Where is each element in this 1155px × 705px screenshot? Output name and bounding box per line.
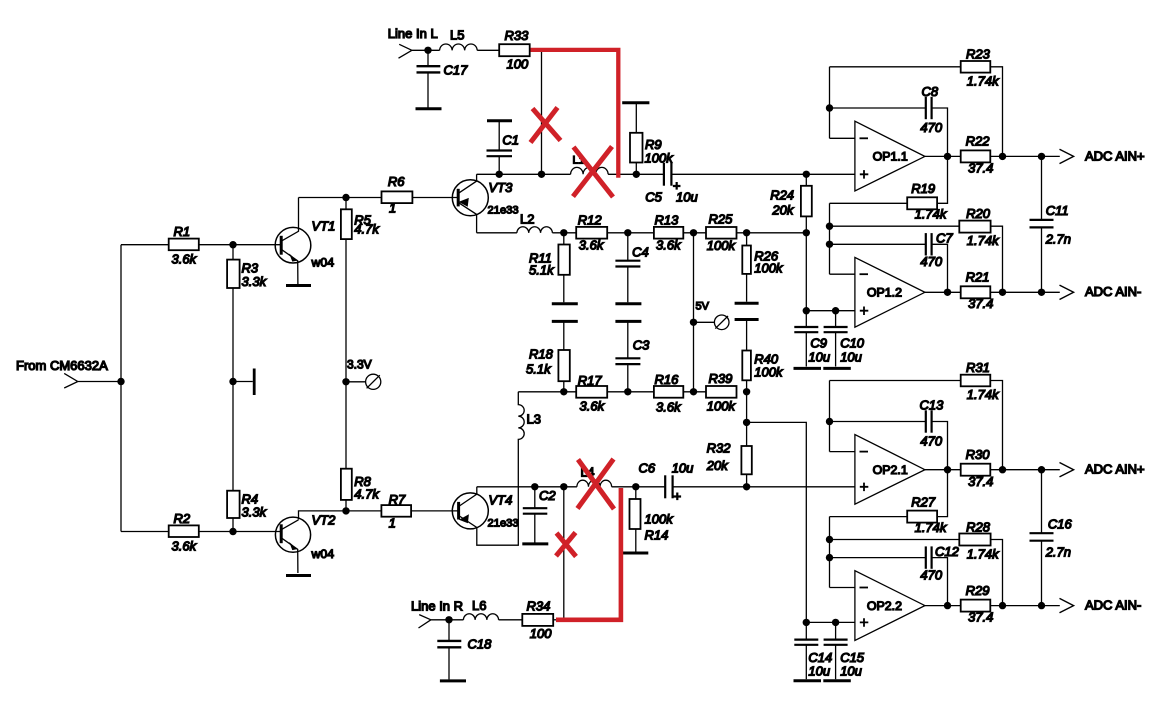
resistor R30 xyxy=(961,447,994,489)
node R9 on row B xyxy=(633,171,640,178)
wire red bypass top (R33 to L1 output) xyxy=(531,50,619,178)
svg-text:L2: L2 xyxy=(520,212,534,227)
svg-text:1.74k: 1.74k xyxy=(915,207,948,222)
svg-text:100k: 100k xyxy=(645,151,675,166)
svg-text:37.4: 37.4 xyxy=(968,296,993,311)
capacitor C16 xyxy=(1030,470,1073,606)
capacitor C18 xyxy=(437,620,492,680)
node mid rail row D junction xyxy=(690,388,697,395)
wire OP1.1 feedback left vertical xyxy=(829,67,831,139)
ground below R26 xyxy=(735,302,759,305)
svg-text:R1: R1 xyxy=(174,224,191,239)
ground below C18 xyxy=(440,679,466,682)
ground above C3 xyxy=(615,320,641,323)
svg-text:100k: 100k xyxy=(754,261,784,276)
capacitor C5 xyxy=(645,163,697,204)
svg-text:Line In L: Line In L xyxy=(388,26,438,41)
capacitor C3 xyxy=(615,321,650,391)
svg-text:R34: R34 xyxy=(527,599,551,614)
svg-text:21e33: 21e33 xyxy=(488,205,519,217)
resistor R11 xyxy=(529,233,570,302)
svg-text:100k: 100k xyxy=(707,399,737,414)
wire OP2.2 minus input xyxy=(830,587,855,589)
node C9 junction xyxy=(803,307,810,314)
node R8/R7/VT2 junction xyxy=(342,507,349,514)
resistor R17 xyxy=(576,373,607,414)
svg-text:3.6k: 3.6k xyxy=(656,238,682,253)
svg-text:470: 470 xyxy=(920,434,942,449)
power symbol 3.3V xyxy=(346,358,381,390)
svg-text:C4: C4 xyxy=(632,245,649,260)
svg-text:10u: 10u xyxy=(808,350,830,365)
svg-text:L6: L6 xyxy=(472,598,486,613)
wire L6 to R34 xyxy=(499,619,523,621)
svg-text:C11: C11 xyxy=(1046,203,1069,218)
svg-text:21e33: 21e33 xyxy=(488,518,519,530)
wire R33 drop to top row xyxy=(530,50,542,174)
svg-text:5V: 5V xyxy=(696,301,710,313)
svg-text:R33: R33 xyxy=(505,28,530,43)
svg-text:5.1k: 5.1k xyxy=(526,362,552,377)
node R28 feedback junction xyxy=(999,602,1006,609)
node 5V tap xyxy=(690,319,697,326)
resistor R8 xyxy=(341,469,380,502)
wire R8 bottom to R7 row xyxy=(345,500,347,511)
resistor R25 xyxy=(706,212,737,254)
svg-text:470: 470 xyxy=(920,120,942,135)
wire Line In L to L5 xyxy=(412,49,440,51)
svg-text:R32: R32 xyxy=(707,441,732,456)
svg-text:C17: C17 xyxy=(444,63,469,78)
wire R6 to VT3 base xyxy=(412,197,458,199)
svg-text:3.3V: 3.3V xyxy=(347,358,372,372)
svg-text:R25: R25 xyxy=(709,212,734,227)
node mid junction with ground stub xyxy=(229,378,236,385)
node ADC AIN- output arrow 2 xyxy=(1060,598,1142,613)
resistor R24 xyxy=(770,174,812,310)
node C18 junction xyxy=(445,616,452,623)
svg-text:3.6k: 3.6k xyxy=(656,400,682,415)
node OP2.1 output junction xyxy=(944,466,951,473)
transistor VT1 xyxy=(275,198,335,285)
svg-text:R28: R28 xyxy=(966,519,991,534)
svg-text:3.6k: 3.6k xyxy=(580,399,606,414)
svg-text:10u: 10u xyxy=(676,189,698,204)
resistor R33 xyxy=(499,28,530,72)
node red X cut mark on R33 drop xyxy=(531,108,561,143)
wire R1 to VT1 base xyxy=(199,244,281,246)
svg-text:1.74k: 1.74k xyxy=(967,546,1000,561)
capacitor C8 xyxy=(830,84,948,203)
node C4 junction row C xyxy=(624,229,631,236)
node C1 on row B xyxy=(496,171,503,178)
svg-text:3.3k: 3.3k xyxy=(242,274,268,289)
node C17 junction xyxy=(424,47,431,54)
wire R22 to ADC AIN+ xyxy=(990,155,1060,157)
resistor R23 xyxy=(830,47,1003,157)
inductor L3 xyxy=(477,392,541,545)
capacitor C1 xyxy=(487,121,520,175)
capacitor C10 xyxy=(824,311,865,367)
svg-text:C6: C6 xyxy=(639,461,656,476)
resistor R4 xyxy=(227,491,267,520)
resistor R9 xyxy=(630,103,674,175)
wire R21 to ADC AIN- xyxy=(990,291,1060,293)
svg-text:VT1: VT1 xyxy=(312,219,336,234)
node R31 feedback junction xyxy=(999,466,1006,473)
node red X over L4 xyxy=(578,459,615,509)
svg-text:R7: R7 xyxy=(389,492,406,507)
resistor R7 xyxy=(381,492,411,531)
wire R2 row xyxy=(121,531,169,533)
inductor L2 xyxy=(517,212,552,233)
svg-text:OP1.2: OP1.2 xyxy=(867,286,902,300)
node C10 junction xyxy=(832,307,839,314)
transistor VT2 xyxy=(275,513,336,574)
wire drop from row E to R34 xyxy=(563,487,565,620)
node C11 bottom junction xyxy=(1038,289,1045,296)
capacitor C9 xyxy=(794,311,830,367)
node C3 junction row D xyxy=(624,388,631,395)
ground above R18 xyxy=(552,320,578,323)
svg-text:w04: w04 xyxy=(311,547,335,561)
svg-text:C2: C2 xyxy=(539,488,556,503)
node C16 top junction xyxy=(1038,466,1045,473)
svg-text:4.7k: 4.7k xyxy=(354,222,380,237)
node L2/R11/R12 junction xyxy=(560,229,567,236)
svg-text:C12: C12 xyxy=(935,544,960,559)
svg-text:3.6k: 3.6k xyxy=(172,539,198,554)
wire R3 top xyxy=(232,245,234,260)
wire VT1 collector to R5 node xyxy=(299,197,347,199)
svg-text:R12: R12 xyxy=(578,213,603,228)
node R20 feedback junction xyxy=(999,289,1006,296)
capacitor C2 xyxy=(523,487,557,543)
resistor R40 xyxy=(742,320,784,392)
node C13 tap xyxy=(826,418,833,425)
wire OP1.2 output xyxy=(925,291,961,293)
svg-text:1.74k: 1.74k xyxy=(967,387,1000,402)
wire OP2.2 output xyxy=(925,605,961,607)
wire OP1.2 plus input rail xyxy=(806,310,855,312)
svg-text:R17: R17 xyxy=(578,373,603,388)
resistor R18 xyxy=(526,321,570,391)
op-amp OP1.1 xyxy=(855,121,925,191)
svg-text:1: 1 xyxy=(389,201,396,216)
ground below C2 xyxy=(522,542,548,545)
node input junction xyxy=(117,378,124,385)
node Line In R xyxy=(411,599,463,629)
resistor R31 xyxy=(830,360,1003,470)
svg-text:100k: 100k xyxy=(645,512,675,527)
resistor R1 xyxy=(169,224,199,267)
svg-text:R6: R6 xyxy=(388,174,405,189)
resistor R3 xyxy=(227,260,267,289)
svg-text:L5: L5 xyxy=(450,28,464,43)
node Line In L xyxy=(388,26,438,58)
resistor R21 xyxy=(961,270,994,312)
node R32 bottom junction xyxy=(743,483,750,490)
svg-text:5.1k: 5.1k xyxy=(529,263,555,278)
svg-text:+: + xyxy=(674,489,682,504)
ground below R14 xyxy=(622,552,648,555)
node red X cut mark on R34 drop xyxy=(556,533,576,557)
ground below C17 xyxy=(416,107,442,110)
svg-text:R30: R30 xyxy=(966,447,991,462)
wire R3 to R4 xyxy=(232,288,234,491)
node C8 tap xyxy=(826,104,833,111)
wire left rail vertical xyxy=(120,245,122,532)
inductor L4 xyxy=(577,466,612,487)
svg-text:10u: 10u xyxy=(672,461,694,476)
svg-text:1.74k: 1.74k xyxy=(915,520,948,535)
svg-text:C9: C9 xyxy=(810,335,827,350)
svg-text:3.6k: 3.6k xyxy=(172,252,198,267)
node R28 tap xyxy=(826,536,833,543)
node R23 feedback junction xyxy=(999,153,1006,160)
svg-text:VT3: VT3 xyxy=(489,180,514,195)
resistor R16 xyxy=(654,372,683,415)
svg-text:37.4: 37.4 xyxy=(968,609,993,624)
svg-text:1.74k: 1.74k xyxy=(967,74,1000,89)
resistor R5 xyxy=(341,198,380,240)
svg-text:VT4: VT4 xyxy=(489,493,513,508)
wire R5 to R8 xyxy=(345,239,347,469)
svg-text:100: 100 xyxy=(530,626,552,641)
svg-text:ADC AIN+: ADC AIN+ xyxy=(1085,462,1145,477)
svg-text:C18: C18 xyxy=(468,637,493,652)
node R39/R40 junction xyxy=(743,388,750,395)
node R24 top on row B xyxy=(803,171,810,178)
capacitor C15 xyxy=(824,622,865,679)
ground below C10 xyxy=(823,367,851,370)
svg-text:C10: C10 xyxy=(840,335,865,350)
svg-text:R14: R14 xyxy=(645,528,669,543)
resistor R14 xyxy=(630,487,675,552)
svg-text:100: 100 xyxy=(507,57,529,72)
wire R29 to ADC AIN- xyxy=(990,605,1060,607)
svg-text:C7: C7 xyxy=(936,231,953,246)
ground bar above C1 xyxy=(487,119,512,122)
svg-text:2.7n: 2.7n xyxy=(1045,232,1071,247)
svg-text:R18: R18 xyxy=(529,347,554,362)
svg-text:37.4: 37.4 xyxy=(968,474,993,489)
resistor R19 xyxy=(830,181,948,222)
svg-text:470: 470 xyxy=(920,568,942,583)
node ADC AIN+ output arrow 2 xyxy=(1060,462,1145,477)
node R13/mid-rail junction xyxy=(690,229,697,236)
node R5/R6 junction xyxy=(342,194,349,201)
resistor R2 xyxy=(169,511,199,554)
svg-text:ADC AIN+: ADC AIN+ xyxy=(1085,148,1145,163)
node C15 junction xyxy=(832,619,839,626)
wire OP2.1 feedback left vertical xyxy=(829,381,831,452)
node R25/R26 junction xyxy=(743,229,750,236)
svg-text:w04: w04 xyxy=(311,256,335,270)
wire R1 row xyxy=(121,244,169,246)
svg-text:C13: C13 xyxy=(920,398,945,413)
svg-text:R29: R29 xyxy=(966,583,990,598)
svg-text:20k: 20k xyxy=(706,458,729,473)
op-amp OP1.2 xyxy=(855,257,925,327)
svg-text:OP2.2: OP2.2 xyxy=(867,599,902,613)
wire OP2.1 minus input xyxy=(830,451,855,453)
node R18 junction row D xyxy=(560,388,567,395)
node R32 top junction xyxy=(743,419,750,426)
node C11 top junction xyxy=(1038,153,1045,160)
svg-text:R19: R19 xyxy=(911,181,935,196)
wire R39 junction down to R32 row xyxy=(746,392,748,446)
ground bar at R3/R4 node xyxy=(253,369,256,396)
node R1/R3 junction xyxy=(229,241,236,248)
wire OP2.1 output xyxy=(925,469,961,471)
ground VT1 emitter xyxy=(286,284,311,287)
svg-text:C8: C8 xyxy=(922,84,939,99)
svg-text:R2: R2 xyxy=(174,511,191,526)
node red X over L1 xyxy=(573,147,613,198)
svg-text:C16: C16 xyxy=(1048,516,1073,531)
svg-text:1.74k: 1.74k xyxy=(967,233,1000,248)
wire R30 to ADC AIN+ xyxy=(990,469,1060,471)
ground bar above R9 xyxy=(622,101,649,104)
node R20 tap xyxy=(826,223,833,230)
transistor VT3 xyxy=(452,174,518,233)
svg-text:ADC AIN-: ADC AIN- xyxy=(1085,598,1141,613)
inductor L6 xyxy=(463,598,498,620)
wire OP1.1 minus input xyxy=(830,137,855,139)
svg-text:10u: 10u xyxy=(808,664,830,679)
wire VT2 collector row xyxy=(299,511,382,520)
transistor VT4 xyxy=(452,487,518,530)
svg-text:R39: R39 xyxy=(709,371,733,386)
wire R34 to drop column xyxy=(553,619,564,621)
ground below R11 xyxy=(552,302,578,305)
svg-text:3.6k: 3.6k xyxy=(579,238,605,253)
svg-text:100k: 100k xyxy=(707,238,737,253)
wire red bypass bottom (R34 to L4 output) xyxy=(556,488,621,620)
resistor R29 xyxy=(961,583,994,625)
node R24 bottom on row C xyxy=(803,229,810,236)
ground below C14 xyxy=(794,679,822,682)
svg-text:10u: 10u xyxy=(840,350,862,365)
resistor R32 xyxy=(706,441,752,487)
wire R2 to VT2 base xyxy=(199,531,281,533)
wire OP2.2 feedback left vertical xyxy=(829,517,831,588)
power symbol 5V xyxy=(694,301,730,330)
svg-text:R23: R23 xyxy=(966,47,991,62)
wire OP2.2 plus input rail xyxy=(806,621,855,623)
ground above R40 xyxy=(735,318,759,321)
node C2 junction xyxy=(531,483,538,490)
resistor R6 xyxy=(346,174,412,216)
node R14 junction row E xyxy=(632,483,639,490)
node ADC AIN- output arrow xyxy=(1060,284,1142,299)
wire R7 to VT4 base xyxy=(411,510,459,512)
capacitor C12 xyxy=(830,544,960,606)
svg-text:OP1.1: OP1.1 xyxy=(873,150,908,164)
node C7 tap xyxy=(826,241,833,248)
svg-text:37.4: 37.4 xyxy=(968,161,993,176)
node OP1.1 output junction xyxy=(944,153,951,160)
svg-text:1: 1 xyxy=(389,516,396,531)
svg-text:R27: R27 xyxy=(911,494,936,509)
inductor L1 xyxy=(571,155,609,175)
ground below C4 xyxy=(615,302,641,305)
node OP1.2 output junction xyxy=(944,289,951,296)
svg-text:C3: C3 xyxy=(633,338,650,353)
ground below C9 xyxy=(794,367,822,370)
capacitor C4 xyxy=(615,233,648,302)
svg-text:470: 470 xyxy=(920,254,942,269)
svg-text:20k: 20k xyxy=(771,203,794,218)
resistor R13 xyxy=(654,213,683,253)
ground below C15 xyxy=(823,679,851,682)
wire top signal row (VT3 collector to opamp) xyxy=(477,173,855,175)
node R33 drop on row B xyxy=(538,171,545,178)
wire VT3 emitter row C xyxy=(477,232,807,234)
svg-text:R21: R21 xyxy=(966,270,990,285)
capacitor C11 xyxy=(1030,156,1072,292)
wire OP1.1 output xyxy=(925,155,961,157)
svg-text:R20: R20 xyxy=(966,206,991,221)
inductor L5 xyxy=(440,28,478,51)
node From CM6632A input xyxy=(16,358,108,388)
wire OP1.2 feedback left vertical xyxy=(829,203,831,274)
resistor R39 xyxy=(706,371,737,414)
wire bottom signal row E xyxy=(477,486,855,488)
svg-text:C1: C1 xyxy=(502,133,519,148)
svg-text:R13: R13 xyxy=(655,213,680,228)
resistor R26 xyxy=(742,233,784,302)
wire bias connector to OP2.2 plus rail xyxy=(747,422,807,622)
capacitor C6 xyxy=(639,461,694,504)
resistor R20 xyxy=(830,206,1003,292)
svg-text:From CM6632A: From CM6632A xyxy=(16,358,108,373)
wire L5 to R33 xyxy=(477,49,499,51)
node OP2.2 output junction xyxy=(944,602,951,609)
node C14 junction xyxy=(803,619,810,626)
wire OP1.2 minus input xyxy=(830,273,855,275)
capacitor C7 xyxy=(830,231,954,293)
svg-text:R24: R24 xyxy=(770,188,794,203)
resistor R34 xyxy=(522,599,553,642)
svg-text:OP2.1: OP2.1 xyxy=(873,463,908,477)
resistor R22 xyxy=(961,134,994,176)
svg-text:R22: R22 xyxy=(966,134,991,149)
SECTION-OPAMPS xyxy=(531,50,621,620)
wire input to left rail xyxy=(78,381,121,383)
node 3.3V tap xyxy=(342,378,349,385)
wire R4 bottom xyxy=(232,518,234,532)
svg-text:3.3k: 3.3k xyxy=(242,505,268,520)
node drop junction row E xyxy=(560,483,567,490)
node ADC AIN+ output arrow xyxy=(1060,148,1145,163)
svg-text:L3: L3 xyxy=(527,412,541,427)
svg-text:100k: 100k xyxy=(754,365,784,380)
ground VT2 emitter xyxy=(286,574,311,577)
svg-text:Line In R: Line In R xyxy=(411,599,463,614)
capacitor C17 xyxy=(417,50,469,107)
resistor R28 xyxy=(830,519,1003,605)
resistor R27 xyxy=(830,494,948,535)
svg-text:C5: C5 xyxy=(645,189,662,204)
capacitor C13 xyxy=(830,398,948,517)
svg-text:ADC AIN-: ADC AIN- xyxy=(1085,284,1141,299)
op-amp OP2.2 xyxy=(855,571,925,641)
node C16 bottom junction xyxy=(1038,602,1045,609)
svg-text:R31: R31 xyxy=(966,360,990,375)
capacitor C14 xyxy=(794,622,832,679)
